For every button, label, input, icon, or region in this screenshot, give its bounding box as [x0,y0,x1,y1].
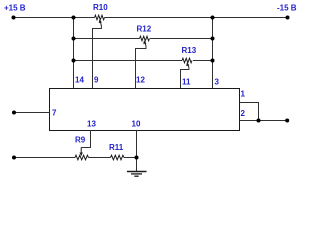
node -15V terminal [286,16,290,20]
svg-text:14: 14 [75,76,84,85]
svg-text:+15 В: +15 В [4,4,26,13]
wire pin 13 to R9 wiper [81,131,90,148]
svg-text:3: 3 [215,78,220,87]
svg-text:2: 2 [241,109,246,118]
node bottom-left terminal [12,156,16,160]
svg-text:10: 10 [132,120,141,129]
resistor R13 [181,46,197,89]
svg-text:1: 1 [241,90,246,99]
node top-right bus junction [211,16,215,20]
svg-text:R10: R10 [93,3,108,12]
svg-text:R11: R11 [109,143,124,152]
node R13 row left junction [72,59,76,63]
node R11/pin10 junction [135,156,139,160]
resistor R9 arrow [80,148,82,154]
resistor R9 [75,136,89,160]
wire R11 to junction [124,157,137,159]
wire top rail left [14,17,95,19]
wire between R9 and R11 [89,157,111,159]
resistor R11 [109,143,124,160]
wire pin 10 / ground drop [136,131,138,172]
node +15V terminal [12,16,16,20]
wire pin 1 [240,103,259,121]
svg-text:R12: R12 [137,25,152,34]
node pin 7 terminal [12,111,16,115]
wire bottom rail left [14,157,75,159]
node R13 row right junction [211,59,215,63]
node output terminal [285,119,289,123]
wire R12 row right [150,38,213,40]
ground [127,172,147,177]
svg-text:R13: R13 [182,46,197,55]
svg-text:-15 В: -15 В [277,4,297,13]
node R12 row left junction [72,37,76,41]
wire pin 7 [14,112,50,114]
wire right vertical bus [212,18,214,89]
wire R12 row left [74,38,140,40]
node pin1/pin2 junction [257,119,261,123]
svg-text:7: 7 [52,109,57,118]
resistor R12 [136,25,152,89]
node R12 row right junction [211,37,215,41]
svg-text:9: 9 [94,76,99,85]
wire R13 row right [193,60,213,62]
wire left vertical bus [73,18,75,89]
svg-text:11: 11 [182,78,191,87]
svg-text:13: 13 [87,120,96,129]
wire pin 2 [240,120,288,122]
wire top rail right [105,17,288,19]
svg-text:R9: R9 [75,136,86,145]
node top-left bus junction [72,16,76,20]
resistor R10 [93,3,109,89]
op-amp U1 box [50,89,240,131]
wire R13 row left [74,60,183,62]
svg-text:12: 12 [136,76,145,85]
